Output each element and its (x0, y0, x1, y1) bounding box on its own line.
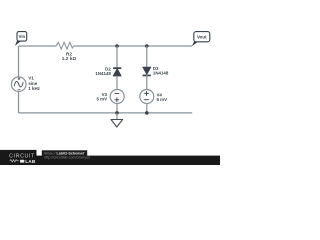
node junction dot left-top (115, 44, 119, 48)
resistor R2 (56, 42, 76, 61)
wire top-right horizontal segment (74, 45, 192, 47)
wire left branch: top rail to D2 (116, 46, 118, 68)
node junction dot left-bottom (115, 111, 119, 115)
wire left vertical (Vin corner to V1 top) (18, 46, 20, 77)
svg-text:1N4148: 1N4148 (153, 71, 169, 76)
svg-text:LAB: LAB (25, 159, 36, 164)
svg-text:timou / Lab02-Schema7: timou / Lab02-Schema7 (44, 151, 84, 155)
svg-text:1N4148: 1N4148 (95, 71, 111, 76)
node junction dot right-bottom (145, 111, 149, 115)
diode D2 (95, 67, 121, 76)
diode D3 (143, 66, 169, 76)
svg-text:5 mV: 5 mV (157, 97, 168, 102)
node junction dot right-top (145, 44, 149, 48)
watermark info text (44, 151, 90, 159)
CircuitLab logo watermark (0, 150, 220, 165)
voltage source V3 (97, 90, 125, 104)
svg-text:1.2 kΩ: 1.2 kΩ (62, 56, 77, 61)
wire right branch: top rail to D3 (146, 46, 148, 68)
svg-text:1 kHz: 1 kHz (28, 86, 40, 91)
svg-text:Vin: Vin (19, 34, 26, 39)
wire left branch: D2 to V3 (116, 76, 118, 90)
wire bottom rail (19, 112, 193, 114)
net flag Vout (192, 32, 210, 47)
wire left branch: V3 to bottom rail (116, 103, 118, 113)
svg-text:Vout: Vout (197, 34, 207, 39)
svg-text:http://circuitlab.com/c/herys3: http://circuitlab.com/c/herys3 (44, 156, 90, 160)
wire right branch: D3 to V4 (146, 75, 148, 90)
voltage source V1 (sine) (11, 76, 40, 92)
wire top-left horizontal segment (18, 45, 56, 47)
voltage source V4 (140, 90, 167, 104)
wire right branch: V4 to bottom rail (146, 103, 148, 113)
svg-text:5 mV: 5 mV (97, 97, 108, 102)
net flag Vin (15, 32, 27, 46)
wire V1 bottom to bottom rail (18, 92, 20, 113)
ground (111, 113, 123, 127)
